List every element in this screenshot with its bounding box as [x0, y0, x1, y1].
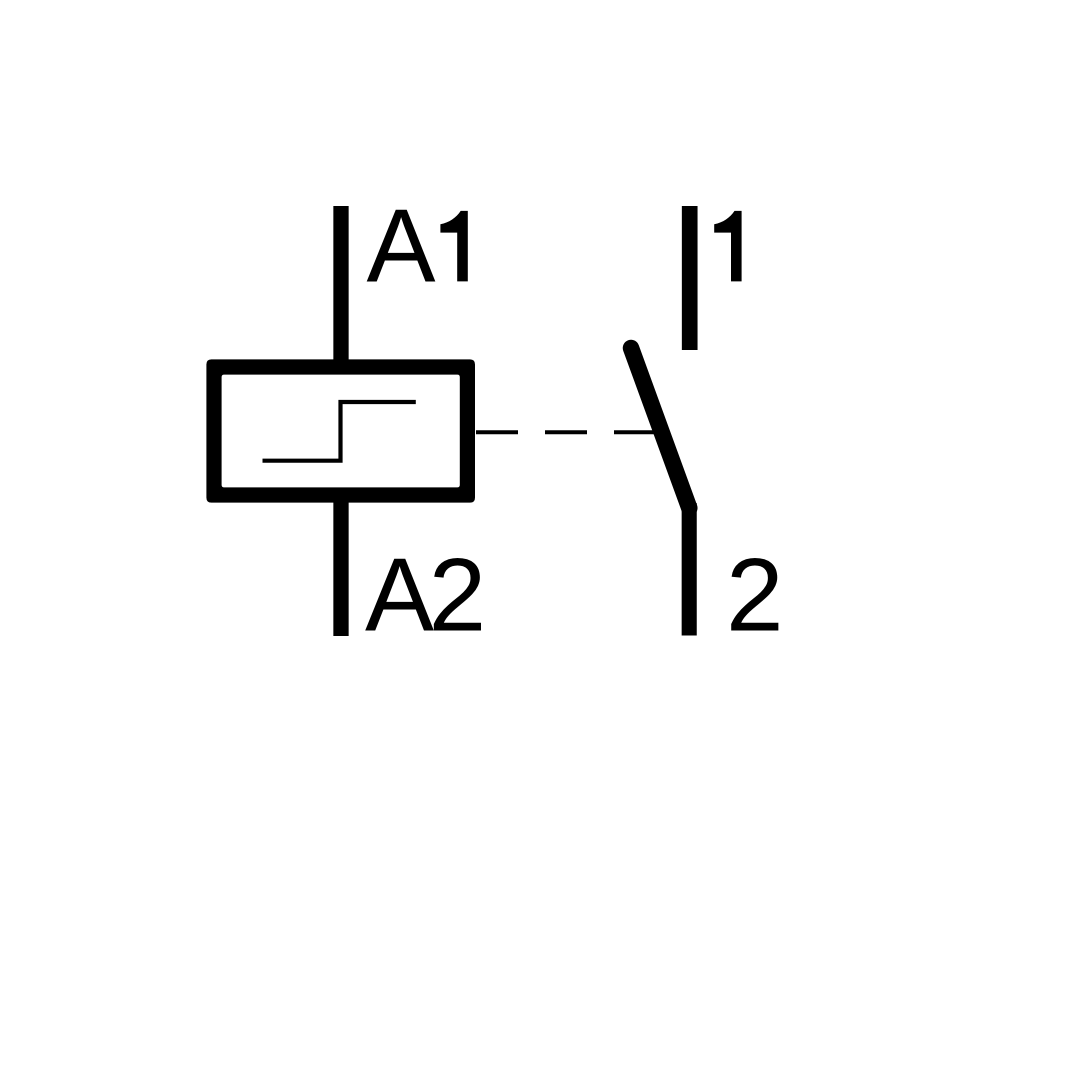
svg-text:2: 2	[726, 537, 784, 653]
wire: coil top lead (terminal A1)	[333, 206, 348, 370]
mechanical link (dashed line from coil to contact)	[476, 430, 656, 434]
relay coil K1 (impulse relay coil box)	[206, 359, 475, 502]
svg-text:A: A	[367, 187, 436, 303]
wire: coil bottom lead (terminal A2)	[333, 494, 348, 636]
wire: contact fixed lead (terminal 1)	[682, 206, 698, 350]
step-function symbol inside coil (bistable / impulse function)	[263, 402, 416, 461]
contact lever (normally-open switch arm)	[631, 348, 689, 508]
svg-text:A: A	[365, 537, 434, 653]
wire: contact bottom lead (terminal 2)	[682, 503, 697, 636]
svg-text:2: 2	[429, 537, 487, 653]
label A1: digit 1 (custom Helvetica-style glyph)	[440, 211, 467, 282]
label 1 (terminal 1, custom Helvetica-style glyph)	[714, 211, 741, 282]
